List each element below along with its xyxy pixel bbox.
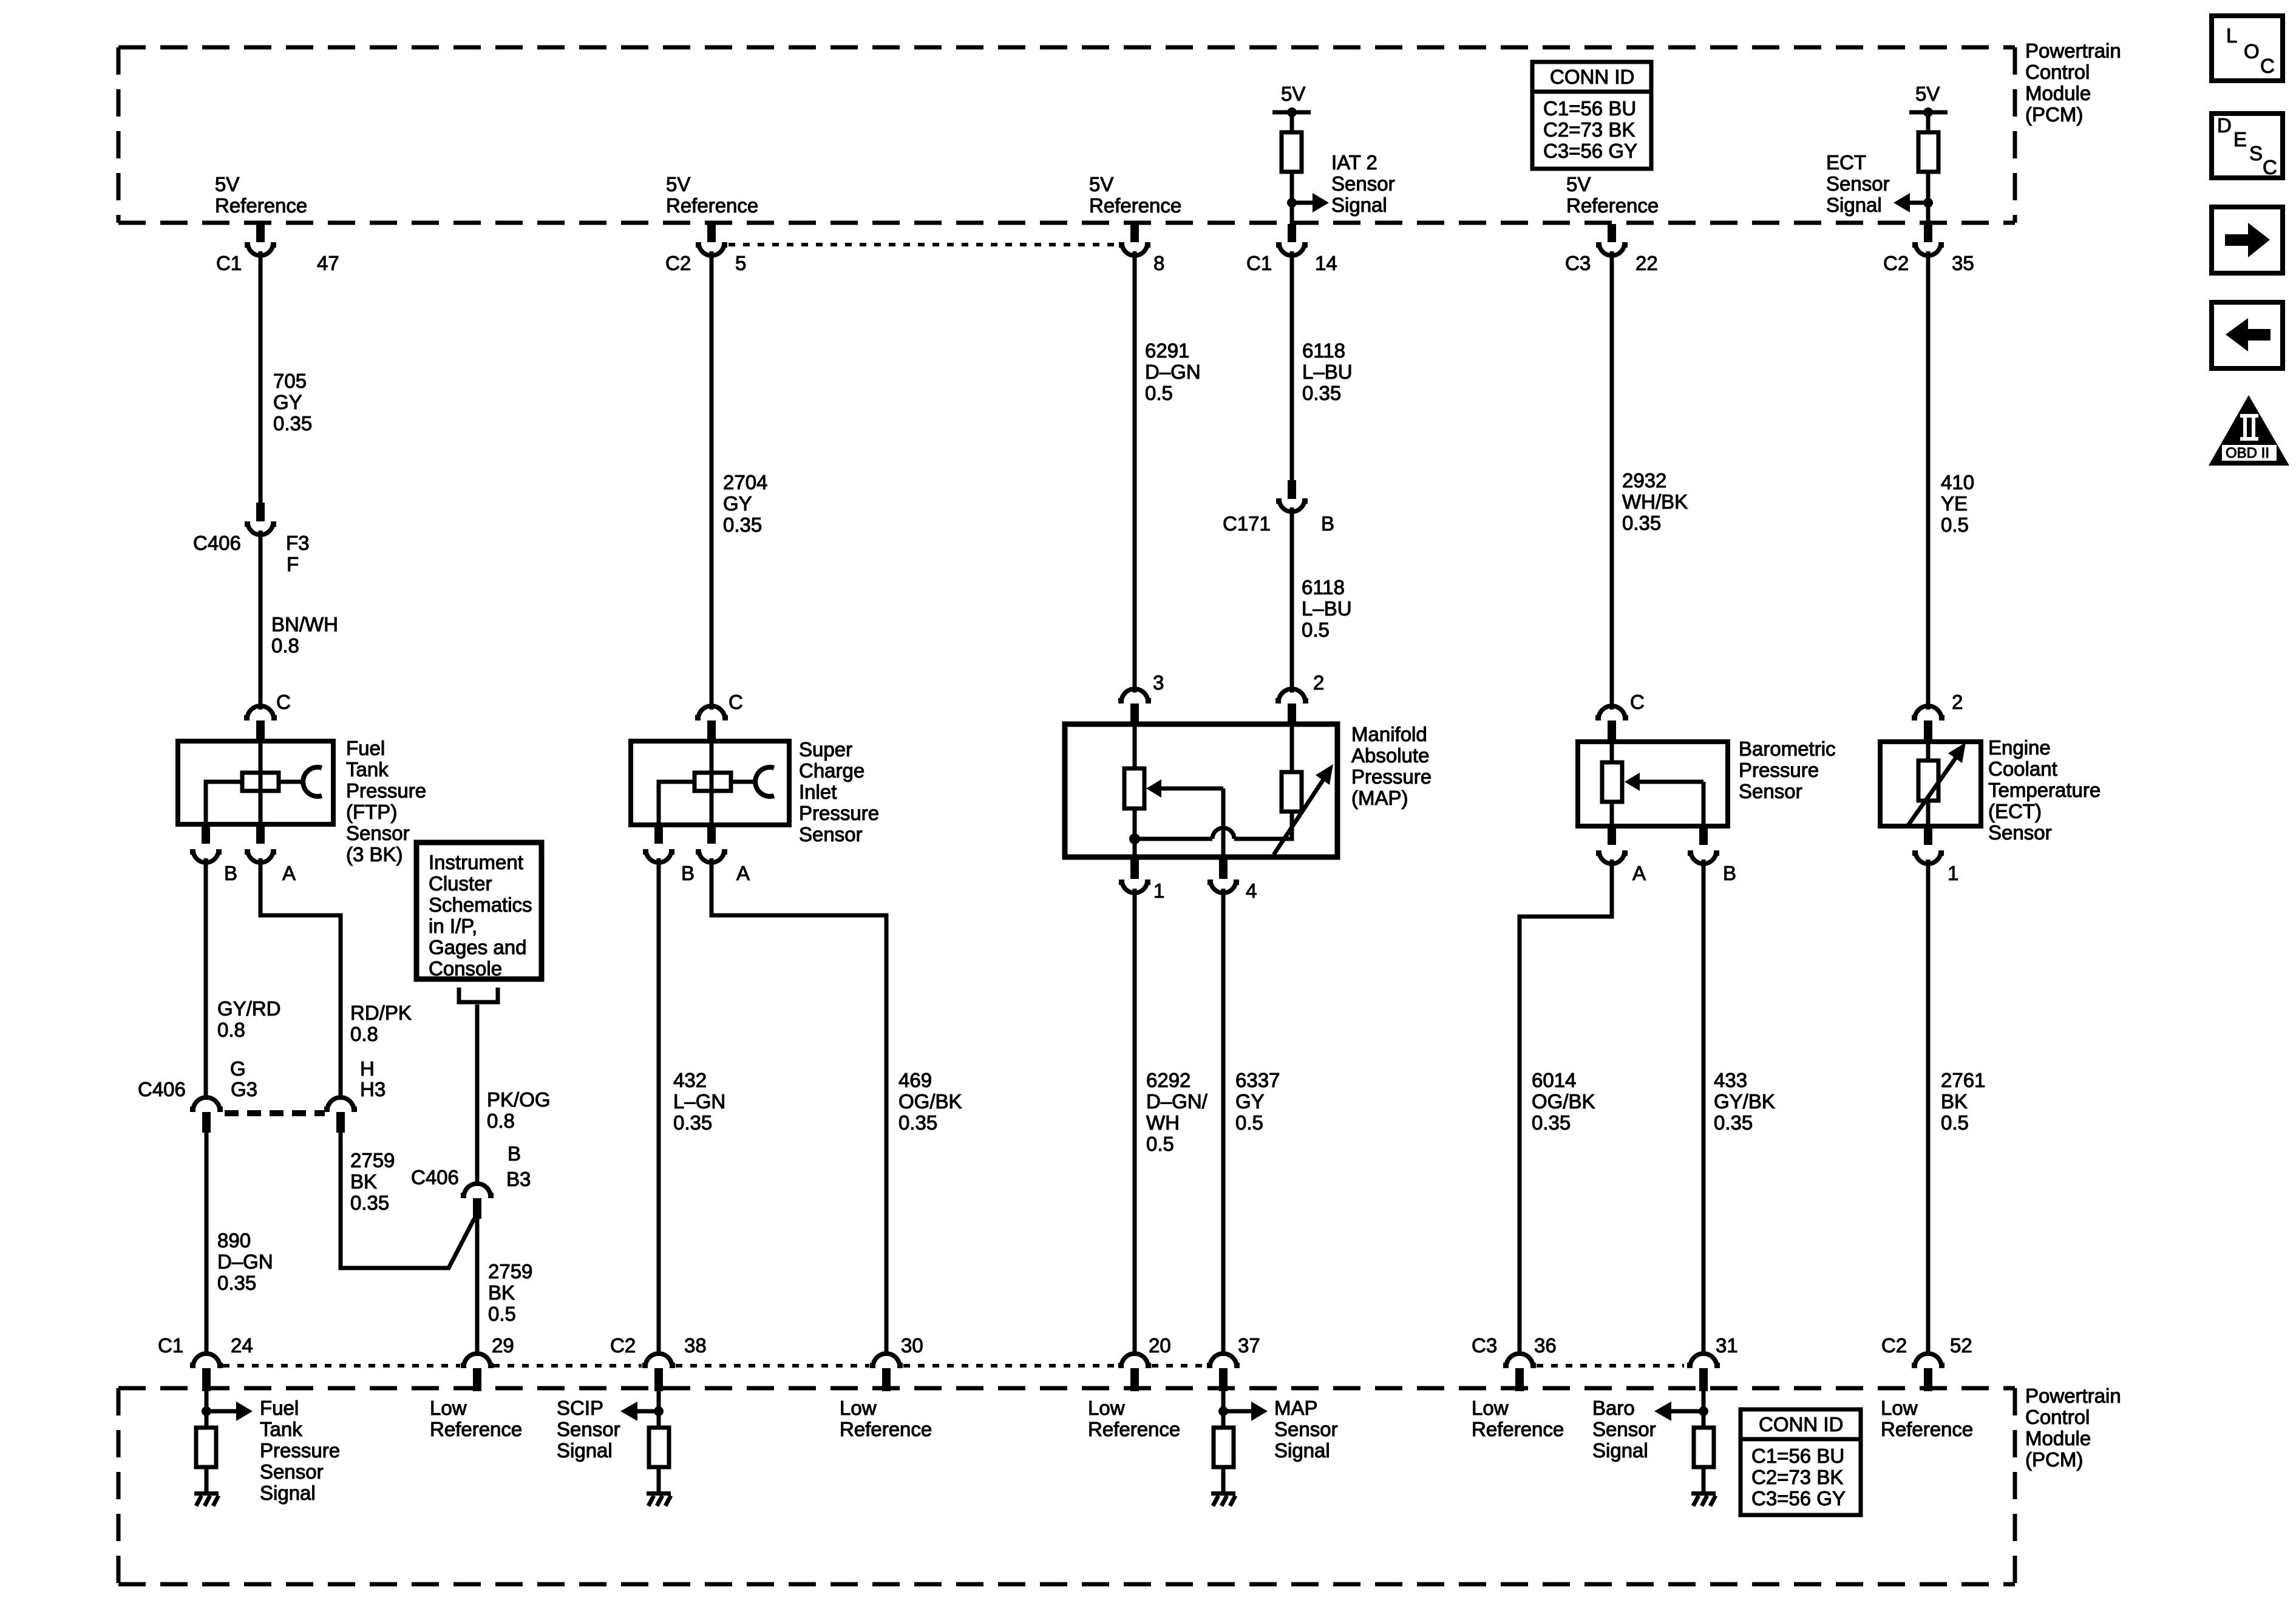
svg-text:A: A (282, 862, 296, 884)
svg-text:0.35: 0.35 (1532, 1111, 1571, 1134)
svg-text:Schematics: Schematics (429, 893, 532, 916)
ECT sensor box (1880, 742, 1981, 826)
wire 2761 BK column (1926, 859, 1931, 1356)
pin C3 36 connector (1503, 1354, 1536, 1391)
pin C of FTP sensor (244, 706, 277, 742)
svg-text:WH/BK: WH/BK (1622, 490, 1688, 513)
svg-text:0.5: 0.5 (1302, 619, 1330, 641)
svg-text:F3: F3 (286, 532, 310, 554)
svg-text:5V: 5V (666, 173, 690, 195)
svg-text:L: L (2226, 24, 2237, 47)
svg-text:Reference: Reference (1881, 1418, 1973, 1440)
PCM resistor at pin 37 (1214, 1428, 1234, 1467)
svg-text:Powertrain: Powertrain (2025, 1385, 2121, 1407)
svg-text:CONN ID: CONN ID (1550, 66, 1634, 88)
svg-text:0.35: 0.35 (1622, 512, 1661, 534)
svg-text:4: 4 (1246, 880, 1257, 902)
pin 8 connector (1119, 224, 1150, 256)
svg-text:(3 BK): (3 BK) (346, 843, 403, 866)
svg-text:D–GN/: D–GN/ (1146, 1090, 1208, 1113)
svg-text:Manifold: Manifold (1351, 723, 1427, 745)
svg-text:433: 433 (1714, 1069, 1747, 1091)
svg-text:MAP: MAP (1274, 1397, 1318, 1419)
svg-text:0.5: 0.5 (1146, 1133, 1174, 1155)
svg-text:Sensor: Sensor (346, 822, 410, 844)
svg-text:6337: 6337 (1235, 1069, 1280, 1091)
svg-text:BK: BK (350, 1170, 377, 1193)
svg-text:Engine: Engine (1988, 736, 2051, 759)
wire 6291 D-GN column (1133, 251, 1137, 693)
svg-text:D: D (2217, 114, 2232, 137)
svg-text:2759: 2759 (350, 1149, 395, 1171)
SCIP pin B connector (643, 825, 674, 863)
svg-text:Powertrain: Powertrain (2025, 39, 2121, 62)
svg-text:Module: Module (2025, 1427, 2091, 1449)
wire 433 GY/BK column (1702, 859, 1706, 1356)
C406 G3-H3 dashed link (225, 1110, 325, 1116)
SCIP internal wire to pin B (659, 782, 695, 825)
svg-text:37: 37 (1238, 1334, 1260, 1357)
pin C2 5 connector (696, 224, 727, 256)
svg-text:C1=56 BU: C1=56 BU (1543, 97, 1636, 120)
junction ECT signal (1923, 198, 1933, 208)
svg-text:Sensor: Sensor (557, 1418, 620, 1440)
ECT pin 1 connector (1912, 826, 1944, 864)
junction Baro signal (1699, 1406, 1708, 1416)
wire 6337 column (1221, 889, 1226, 1356)
svg-text:Low: Low (840, 1397, 877, 1419)
svg-text:52: 52 (1950, 1334, 1972, 1357)
icon DESC box (2212, 114, 2283, 178)
svg-text:C1: C1 (1246, 252, 1272, 274)
arrow MAP sensor signal (1223, 1402, 1268, 1421)
svg-text:Sensor: Sensor (1274, 1418, 1338, 1440)
svg-text:O: O (2244, 40, 2260, 63)
pin C1 24 connector (190, 1354, 223, 1391)
svg-text:31: 31 (1716, 1334, 1738, 1357)
svg-text:E: E (2233, 128, 2247, 151)
svg-text:36: 36 (1534, 1334, 1557, 1357)
svg-text:C2=73 BK: C2=73 BK (1751, 1466, 1843, 1488)
svg-text:8: 8 (1153, 252, 1164, 274)
svg-text:Barometric: Barometric (1739, 737, 1836, 760)
connector C406 B/B3 (461, 1184, 494, 1219)
wire 6014 OG/BK from pin A (1520, 859, 1612, 1356)
svg-text:2759: 2759 (488, 1260, 532, 1283)
svg-text:Reference: Reference (1472, 1418, 1564, 1440)
Barometric sensor box (1578, 742, 1728, 826)
svg-text:Sensor: Sensor (1739, 780, 1802, 802)
svg-text:Signal: Signal (1592, 1439, 1648, 1462)
svg-text:H3: H3 (360, 1078, 385, 1100)
MAP pin 1 connector (1119, 857, 1150, 893)
wire GY/RD column B (204, 858, 208, 1100)
MAP pin 2 connector (1275, 689, 1308, 725)
svg-text:RD/PK: RD/PK (350, 1002, 412, 1024)
MAP wiper arrow (1146, 779, 1223, 798)
wire to ground pin 38 (657, 1467, 661, 1491)
ECT thermistor (1918, 742, 1938, 826)
svg-text:YE: YE (1941, 492, 1968, 515)
svg-text:GY/RD: GY/RD (217, 997, 281, 1020)
arrow Fuel Tank Pressure signal (206, 1402, 253, 1421)
svg-text:Sensor: Sensor (1592, 1418, 1656, 1440)
svg-text:B: B (508, 1142, 521, 1165)
svg-text:47: 47 (317, 252, 339, 274)
svg-text:B: B (1321, 512, 1334, 535)
svg-text:C406: C406 (411, 1166, 459, 1188)
node 5V IAT2 feed (1272, 83, 1311, 117)
svg-text:(ECT): (ECT) (1988, 800, 2042, 822)
svg-text:0.35: 0.35 (1714, 1111, 1753, 1134)
connector C406 H/H3 (324, 1097, 357, 1133)
svg-text:2: 2 (1952, 691, 1963, 713)
svg-text:6118: 6118 (1302, 576, 1345, 598)
svg-text:432: 432 (673, 1069, 707, 1091)
wire into PCM from pin 31 (1702, 1391, 1706, 1429)
MAP sensor box (1065, 724, 1337, 857)
svg-text:Sensor: Sensor (1331, 172, 1395, 195)
FTP internal resistor (242, 741, 279, 824)
svg-text:GY: GY (1235, 1090, 1265, 1113)
MAP pin 3 connector (1118, 689, 1151, 725)
svg-text:Reference: Reference (1089, 194, 1181, 217)
svg-text:L–GN: L–GN (673, 1090, 725, 1113)
svg-text:Absolute: Absolute (1351, 744, 1429, 767)
bottom connector row dotted link 36-31 (1537, 1364, 1684, 1368)
svg-text:C: C (729, 691, 743, 713)
MAP bottom wire with hop (1135, 812, 1292, 839)
svg-text:Tank: Tank (260, 1418, 302, 1440)
pin C1 47 connector (245, 224, 276, 256)
pin 30 connector (870, 1354, 903, 1391)
pin C2 38 connector (642, 1354, 675, 1391)
pin C1 14 connector (1276, 224, 1308, 256)
pin C of SCIP sensor (695, 706, 728, 742)
pin 2 of ECT sensor (1912, 706, 1944, 742)
wire 432 L-GN column (657, 858, 661, 1356)
svg-text:C406: C406 (138, 1078, 186, 1100)
svg-text:1: 1 (1153, 880, 1164, 902)
svg-text:G: G (230, 1057, 246, 1080)
svg-text:A: A (1632, 862, 1646, 884)
svg-text:Instrument: Instrument (429, 851, 523, 873)
wire IAT2 to junction (1290, 172, 1294, 224)
svg-text:0.5: 0.5 (1941, 514, 1969, 536)
svg-text:410: 410 (1941, 471, 1974, 493)
svg-text:6292: 6292 (1146, 1069, 1190, 1091)
svg-text:Fuel: Fuel (346, 737, 385, 759)
SCIP internal resistor (695, 741, 731, 825)
Super Charge sensor box (631, 741, 789, 825)
junction MAP signal (1218, 1406, 1228, 1416)
wire to ground pin 31 (1702, 1467, 1706, 1491)
svg-text:Signal: Signal (1331, 194, 1387, 216)
Baro wiper wire to pin B (1702, 782, 1706, 826)
svg-text:Pressure: Pressure (799, 802, 879, 824)
connector C406 G/G3 (190, 1097, 223, 1133)
ground SCIP signal (647, 1491, 671, 1506)
CONN ID box top (1532, 62, 1651, 169)
ground FTP signal (194, 1491, 219, 1506)
svg-text:C2: C2 (610, 1334, 636, 1357)
svg-text:Reference: Reference (840, 1418, 932, 1440)
svg-text:3: 3 (1153, 671, 1164, 694)
SCIP pressure port symbol (731, 767, 774, 796)
svg-text:WH: WH (1146, 1111, 1180, 1134)
svg-text:Low: Low (430, 1397, 467, 1419)
wire to ground pin 24 (205, 1467, 209, 1491)
Instrument Cluster box (416, 842, 542, 979)
junction SCIP signal (654, 1406, 664, 1416)
wire RD/PK from pin A (260, 858, 341, 1100)
wire 469 OG/BK from pin A (712, 858, 886, 1356)
icon arrow right box (2212, 207, 2283, 273)
svg-text:0.5: 0.5 (488, 1303, 516, 1325)
junction IAT2 signal (1287, 198, 1297, 208)
CONN ID box bottom (1741, 1409, 1861, 1515)
svg-text:30: 30 (901, 1334, 923, 1357)
svg-text:OG/BK: OG/BK (898, 1090, 962, 1113)
FTP pin B connector (190, 824, 222, 863)
wire 705 GY column (259, 251, 263, 504)
icon OBD II triangle (2209, 395, 2289, 466)
arrow SCIP sensor signal (620, 1402, 659, 1421)
svg-text:A: A (736, 862, 750, 884)
svg-text:2704: 2704 (723, 471, 767, 493)
svg-text:6014: 6014 (1532, 1069, 1576, 1091)
svg-text:6291: 6291 (1145, 339, 1189, 362)
FTP pressure port symbol (279, 767, 322, 796)
svg-text:Reference: Reference (1566, 194, 1659, 217)
svg-text:0.35: 0.35 (273, 412, 312, 435)
svg-text:0.8: 0.8 (350, 1023, 378, 1045)
svg-text:24: 24 (231, 1334, 253, 1357)
svg-text:Reference: Reference (1088, 1418, 1180, 1440)
Baro potentiometer resistor (1602, 742, 1622, 826)
icon arrow left box (2212, 302, 2283, 368)
PCM resistor at pin 31 (1694, 1428, 1714, 1467)
MAP variable resistor (1282, 724, 1302, 812)
svg-text:(PCM): (PCM) (2025, 1448, 2083, 1471)
svg-text:C3: C3 (1565, 252, 1591, 274)
FTP internal wire to pin B (206, 782, 242, 824)
pin 20 connector (1118, 1354, 1151, 1391)
svg-text:C: C (276, 691, 291, 713)
svg-text:D–GN: D–GN (1145, 361, 1201, 383)
ECT pull-up resistor (1918, 112, 1938, 172)
svg-text:OBD II: OBD II (2226, 445, 2269, 461)
svg-text:IAT 2: IAT 2 (1331, 151, 1377, 174)
svg-text:Coolant: Coolant (1988, 758, 2057, 780)
arrow Baro sensor signal (1654, 1402, 1703, 1421)
svg-text:Pressure: Pressure (260, 1439, 340, 1462)
svg-text:(PCM): (PCM) (2025, 103, 2083, 126)
svg-text:C2: C2 (1881, 1334, 1907, 1357)
FTP sensor box (178, 741, 333, 824)
IAT2 pull-up resistor (1282, 112, 1302, 172)
wire 6292 column (1133, 889, 1137, 1356)
svg-text:Temperature: Temperature (1988, 779, 2101, 801)
connector C171 B (1276, 480, 1308, 512)
svg-text:0.5: 0.5 (1235, 1111, 1263, 1134)
svg-text:Signal: Signal (1826, 194, 1882, 216)
PCM top dashed box (118, 47, 2015, 223)
svg-text:Low: Low (1881, 1397, 1918, 1419)
wire into PCM from pin 38 (657, 1391, 661, 1429)
svg-text:B3: B3 (506, 1168, 531, 1190)
svg-text:Reference: Reference (215, 194, 307, 217)
wire 410 YE column (1926, 251, 1931, 710)
svg-text:ECT: ECT (1826, 151, 1866, 174)
svg-text:Pressure: Pressure (346, 779, 426, 802)
dotted link pin5 to pin8 (729, 243, 1118, 246)
svg-text:0.35: 0.35 (723, 514, 762, 536)
svg-text:20: 20 (1149, 1334, 1171, 1357)
svg-text:B: B (1723, 862, 1736, 884)
svg-text:C2=73 BK: C2=73 BK (1543, 118, 1635, 141)
PCM bottom dashed box (118, 1388, 2015, 1584)
svg-text:2761: 2761 (1941, 1069, 1985, 1091)
svg-text:29: 29 (492, 1334, 514, 1357)
svg-text:0.8: 0.8 (271, 634, 299, 657)
svg-text:C171: C171 (1223, 512, 1271, 535)
svg-text:in I/P,: in I/P, (429, 915, 477, 937)
svg-text:6118: 6118 (1302, 339, 1345, 362)
MAP potentiometer resistor (1124, 724, 1144, 857)
svg-text:5V: 5V (1281, 83, 1305, 105)
node 5V ECT feed (1909, 83, 1948, 117)
wire PK/OG from bracket (475, 1005, 480, 1186)
svg-text:705: 705 (273, 370, 307, 392)
svg-text:B: B (681, 862, 695, 884)
svg-text:Low: Low (1088, 1397, 1125, 1419)
PCM resistor at pin 38 (649, 1428, 669, 1467)
pin 37 connector (1207, 1354, 1240, 1391)
svg-text:0.35: 0.35 (217, 1272, 256, 1294)
off-page bracket under cluster box (459, 988, 498, 1002)
svg-text:Fuel: Fuel (260, 1397, 299, 1419)
wire 2704 GY column (710, 251, 714, 710)
svg-text:38: 38 (684, 1334, 707, 1357)
svg-text:0.35: 0.35 (350, 1192, 389, 1214)
svg-text:C: C (1630, 691, 1645, 713)
svg-text:Cluster: Cluster (429, 872, 492, 895)
svg-text:Baro: Baro (1592, 1397, 1635, 1419)
svg-text:BK: BK (1941, 1090, 1968, 1113)
PCM resistor at pin 24 (196, 1428, 216, 1467)
svg-text:5V: 5V (1566, 173, 1591, 195)
svg-text:469: 469 (898, 1069, 932, 1091)
junction FTP signal (202, 1406, 211, 1416)
wire 2759 BK 0.35 from H3 (341, 1133, 474, 1268)
svg-text:2: 2 (1313, 671, 1324, 694)
svg-text:0.5: 0.5 (1941, 1111, 1969, 1134)
svg-text:Sensor: Sensor (1826, 172, 1890, 195)
svg-text:Inlet: Inlet (799, 781, 837, 803)
svg-text:Control: Control (2025, 61, 2090, 83)
svg-text:C3=56 GY: C3=56 GY (1751, 1487, 1846, 1510)
bottom connector row dotted link 24-37 (223, 1364, 1206, 1368)
MAP pin 4 connector (1207, 857, 1239, 893)
wire 6118 L-BU 0.35 (1290, 251, 1294, 482)
svg-text:H: H (360, 1057, 375, 1080)
svg-text:890: 890 (217, 1229, 251, 1252)
wire into PCM from pin 37 (1221, 1391, 1226, 1429)
svg-text:C2: C2 (665, 252, 691, 274)
arrow ECT sensor signal (1894, 193, 1928, 212)
svg-text:L–BU: L–BU (1302, 597, 1352, 620)
svg-text:C1: C1 (158, 1334, 183, 1357)
svg-text:C3=56 GY: C3=56 GY (1543, 140, 1637, 162)
wire into PCM from pin 24 (205, 1391, 209, 1429)
svg-text:0.8: 0.8 (487, 1110, 515, 1132)
svg-text:L–BU: L–BU (1302, 361, 1353, 383)
svg-text:Signal: Signal (1274, 1439, 1330, 1462)
svg-text:Super: Super (799, 738, 852, 761)
Baro pin B connector (1688, 826, 1719, 864)
svg-text:5V: 5V (215, 173, 239, 195)
ground MAP signal (1211, 1491, 1235, 1506)
svg-text:14: 14 (1315, 252, 1337, 274)
MAP internal junction (1129, 833, 1140, 844)
svg-text:0.35: 0.35 (673, 1111, 712, 1134)
svg-text:22: 22 (1635, 252, 1658, 274)
svg-text:C3: C3 (1472, 1334, 1497, 1357)
pin 29 connector (461, 1354, 494, 1391)
svg-text:0.8: 0.8 (217, 1019, 245, 1041)
pin C of Baro sensor (1595, 706, 1628, 742)
svg-text:C: C (2263, 156, 2277, 178)
svg-text:C1: C1 (216, 252, 242, 274)
svg-text:Pressure: Pressure (1351, 765, 1432, 788)
svg-text:(MAP): (MAP) (1351, 787, 1408, 809)
pin 31 connector (1687, 1354, 1720, 1391)
svg-text:OG/BK: OG/BK (1532, 1090, 1595, 1113)
svg-text:CONN ID: CONN ID (1759, 1413, 1843, 1436)
svg-text:Control: Control (2025, 1406, 2090, 1428)
svg-text:BN/WH: BN/WH (271, 613, 338, 636)
svg-text:GY/BK: GY/BK (1714, 1090, 1775, 1113)
svg-text:Sensor: Sensor (1988, 821, 2052, 844)
wire 6118 L-BU 0.5 (1290, 507, 1294, 693)
wire to ground pin 37 (1221, 1467, 1226, 1491)
svg-text:Sensor: Sensor (799, 823, 863, 846)
MAP wiper vertical wire to pin 4 (1221, 788, 1226, 857)
svg-text:5V: 5V (1089, 173, 1113, 195)
svg-text:C406: C406 (193, 532, 241, 554)
ground Baro signal (1691, 1491, 1716, 1506)
svg-text:B: B (224, 862, 237, 884)
svg-text:F: F (287, 553, 299, 575)
Baro pin A connector (1596, 826, 1628, 864)
svg-text:C: C (2260, 55, 2275, 77)
svg-text:0.35: 0.35 (1302, 382, 1341, 404)
svg-text:GY: GY (273, 391, 302, 413)
arrow IAT2 sensor signal (1292, 193, 1329, 212)
wire 2759 BK 0.5 column (475, 1219, 480, 1356)
wire 890 D-GN column (205, 1133, 209, 1356)
svg-text:5: 5 (735, 252, 746, 274)
svg-text:Sensor: Sensor (260, 1460, 324, 1483)
svg-text:G3: G3 (231, 1078, 257, 1100)
wire 2932 WH/BK column (1610, 251, 1614, 710)
icon LOC box (2212, 16, 2283, 81)
svg-text:D–GN: D–GN (217, 1250, 273, 1273)
Baro wiper arrow (1625, 773, 1703, 791)
svg-text:Signal: Signal (260, 1482, 316, 1504)
svg-text:0.5: 0.5 (1145, 382, 1173, 404)
